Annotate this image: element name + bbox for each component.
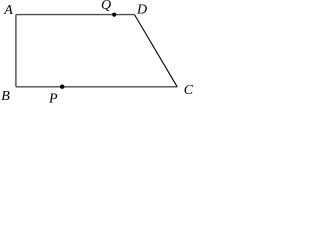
svg-text:D: D: [136, 2, 147, 17]
side AD (top): [16, 14, 135, 16]
svg-text:B: B: [1, 89, 10, 103]
side BC (bottom): [16, 86, 177, 88]
side DC (slant): [135, 15, 178, 87]
svg-text:A: A: [3, 3, 13, 18]
svg-text:Q: Q: [101, 0, 111, 13]
svg-text:P: P: [48, 91, 58, 103]
point P dot: [60, 85, 64, 89]
svg-text:C: C: [184, 83, 194, 98]
side AB (left): [15, 15, 17, 87]
point Q dot: [112, 13, 116, 17]
